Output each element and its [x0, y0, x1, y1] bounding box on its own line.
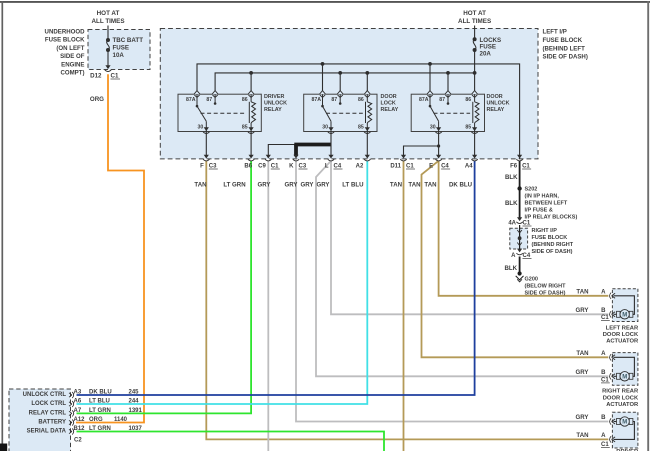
- svg-text:G200: G200: [525, 277, 538, 283]
- wire LT BLU lock ctrl: [77, 161, 368, 404]
- ground G200: [516, 271, 524, 282]
- svg-text:10A: 10A: [113, 52, 125, 59]
- svg-text:A7: A7: [74, 408, 82, 414]
- wire relay1 86 stub: [250, 73, 252, 94]
- svg-text:A12: A12: [74, 417, 86, 423]
- BCM pin A6 LOCK CTRL: [31, 399, 139, 408]
- wire relay3 87A stub: [429, 64, 431, 94]
- svg-text:E: E: [429, 164, 433, 170]
- label BLK 2: [505, 200, 518, 207]
- svg-text:87: 87: [331, 97, 337, 103]
- svg-text:244: 244: [129, 399, 140, 405]
- bus junction dots: [249, 62, 476, 75]
- svg-text:245: 245: [129, 390, 140, 396]
- svg-text:C1: C1: [522, 164, 530, 170]
- wire relay3 30 to E-C4: [438, 132, 440, 156]
- underhood fuse block box: [88, 30, 150, 70]
- svg-text:M: M: [622, 313, 627, 319]
- svg-text:A: A: [601, 432, 606, 439]
- left IP fuse block box: [160, 29, 538, 159]
- svg-text:86: 86: [242, 97, 248, 103]
- svg-text:C4: C4: [441, 164, 449, 170]
- svg-text:F6: F6: [510, 164, 518, 170]
- wire GRY K to actuator3 B: [296, 161, 608, 422]
- svg-text:I/P FUSE &: I/P FUSE &: [525, 208, 553, 214]
- svg-text:ACTUATOR: ACTUATOR: [606, 339, 639, 345]
- label ORG: [90, 96, 104, 103]
- svg-text:LEFT I/P: LEFT I/P: [543, 29, 567, 36]
- svg-text:GRY: GRY: [258, 182, 271, 189]
- svg-text:A: A: [601, 288, 606, 295]
- right IP fuse block label: [532, 228, 574, 255]
- svg-text:86: 86: [358, 97, 364, 103]
- wire labels row: [194, 182, 472, 189]
- wire D11 branch: [404, 144, 441, 155]
- wire TAN E bent to actuator2 A: [422, 161, 609, 357]
- right rear door lock actuator: [602, 353, 639, 408]
- svg-text:A3: A3: [74, 390, 82, 396]
- svg-text:C1: C1: [523, 221, 531, 227]
- wire relay2 85 to A2: [366, 132, 368, 156]
- svg-text:LT GRN: LT GRN: [89, 408, 111, 414]
- svg-text:(BEHIND LEFT: (BEHIND LEFT: [543, 45, 586, 52]
- svg-text:1140: 1140: [114, 417, 128, 423]
- svg-text:ENGINE: ENGINE: [61, 61, 84, 68]
- fuse TBC BATT 10A: [106, 37, 143, 59]
- svg-text:BLK: BLK: [504, 265, 517, 272]
- wire GRY C9 down offpage: [267, 161, 269, 451]
- svg-text:LOCK: LOCK: [381, 101, 396, 107]
- relay K1 driver unlock relay: [178, 91, 287, 134]
- svg-text:C1: C1: [406, 164, 414, 170]
- svg-text:SIDE OF DASH): SIDE OF DASH): [525, 291, 566, 297]
- svg-text:ACTUATOR: ACTUATOR: [606, 402, 639, 408]
- connector F6 C1: [510, 155, 531, 170]
- svg-text:LT GRN: LT GRN: [223, 182, 245, 189]
- ground bus (87A bus) to F6: [197, 64, 520, 159]
- svg-text:GRY: GRY: [576, 414, 589, 421]
- svg-text:BLK: BLK: [505, 200, 518, 207]
- svg-text:FUSE BLOCK: FUSE BLOCK: [45, 37, 85, 44]
- wire relay2 86 stub: [366, 73, 368, 94]
- thick lock feed wire: [294, 145, 331, 157]
- BCM pin B12 SERIAL DATA: [27, 426, 143, 435]
- svg-text:ALL TIMES: ALL TIMES: [458, 18, 491, 25]
- svg-text:C3: C3: [209, 164, 217, 170]
- wire GRY L straight to actuator1 B: [331, 161, 608, 314]
- svg-text:B: B: [601, 414, 606, 421]
- svg-text:TBC BATT: TBC BATT: [113, 37, 144, 44]
- svg-text:TAN: TAN: [424, 182, 436, 189]
- wire locks fuse feed: [474, 26, 476, 40]
- wire relay3 85 to A4: [474, 132, 476, 156]
- underhood fuse block label: [45, 29, 86, 77]
- wire fuse feed left: [107, 26, 109, 41]
- svg-text:ORG: ORG: [89, 417, 103, 423]
- wire locks fuse to relay3 86: [474, 50, 476, 94]
- svg-text:C9: C9: [258, 164, 266, 170]
- svg-text:A: A: [511, 253, 516, 259]
- svg-text:B6: B6: [244, 164, 252, 170]
- wire relay2 30 to L-C4: [330, 132, 332, 156]
- connector F C3: [200, 155, 218, 170]
- label HOT AT ALL TIMES (left): [91, 10, 124, 25]
- svg-text:30: 30: [322, 125, 328, 131]
- svg-text:C2: C2: [74, 438, 82, 444]
- svg-text:D12: D12: [90, 73, 102, 80]
- connector L C4: [325, 155, 343, 170]
- wire ORG battery feed: [76, 74, 144, 422]
- wire TAN E straight to actuator1 A: [439, 161, 609, 296]
- svg-text:GRY: GRY: [301, 182, 314, 189]
- svg-text:20A: 20A: [480, 50, 492, 57]
- svg-text:FUSE: FUSE: [113, 45, 130, 52]
- svg-text:30: 30: [430, 125, 436, 131]
- svg-text:(IN I/P HARN,: (IN I/P HARN,: [525, 194, 560, 200]
- svg-text:RELAY: RELAY: [264, 107, 282, 113]
- connector 4A C1: [508, 217, 531, 226]
- connector D12 C1: [90, 65, 120, 79]
- svg-text:A: A: [601, 350, 606, 357]
- svg-text:C4: C4: [523, 253, 531, 259]
- svg-text:TAN: TAN: [194, 182, 206, 189]
- svg-text:A2: A2: [356, 164, 364, 170]
- svg-text:87A: 87A: [186, 97, 196, 103]
- wire LT GRN serial data: [77, 432, 385, 451]
- wire relay2 87 stub: [339, 73, 341, 94]
- svg-text:SIDE OF DASH): SIDE OF DASH): [543, 54, 588, 61]
- svg-text:HOT AT: HOT AT: [463, 10, 486, 17]
- svg-text:I/P RELAY BLOCKS): I/P RELAY BLOCKS): [525, 215, 578, 221]
- wire BLK to G200: [519, 257, 521, 273]
- right IP fuse block box: [510, 228, 528, 249]
- svg-text:ALL TIMES: ALL TIMES: [91, 18, 124, 25]
- body control module box: [9, 389, 71, 451]
- svg-text:HOT AT: HOT AT: [97, 10, 120, 17]
- svg-text:85: 85: [242, 125, 248, 131]
- svg-text:GRY: GRY: [317, 182, 330, 189]
- svg-text:87: 87: [439, 97, 445, 103]
- left rear actuator pin labels: [576, 288, 610, 321]
- wire GRY L bent to actuator2 B: [316, 161, 608, 376]
- svg-text:BATTERY: BATTERY: [38, 419, 66, 425]
- svg-text:C1: C1: [271, 164, 279, 170]
- label HOT AT ALL TIMES (right): [458, 10, 491, 25]
- connector A2: [356, 155, 371, 170]
- svg-text:LT BLU: LT BLU: [342, 182, 364, 189]
- wire relay3 87 stub: [447, 73, 449, 94]
- S202 annotation: [525, 187, 578, 221]
- svg-text:K: K: [289, 164, 294, 170]
- svg-text:LEFT REAR: LEFT REAR: [606, 325, 639, 331]
- svg-text:(BEHIND RIGHT: (BEHIND RIGHT: [532, 242, 574, 248]
- svg-text:87: 87: [206, 97, 212, 103]
- svg-text:TAN: TAN: [390, 182, 402, 189]
- G200 annotation: [525, 277, 567, 297]
- svg-text:B: B: [601, 307, 606, 314]
- svg-text:BLK: BLK: [505, 174, 518, 181]
- svg-text:LOCK CTRL: LOCK CTRL: [31, 401, 66, 407]
- svg-text:RIGHT REAR: RIGHT REAR: [602, 389, 639, 395]
- label BLK 3: [504, 265, 517, 272]
- left rear door lock actuator: [603, 289, 639, 345]
- driver actuator pin labels: [576, 414, 610, 448]
- svg-text:D11: D11: [390, 164, 401, 170]
- wire LT GRN relay ctrl: [77, 161, 252, 414]
- svg-text:C4: C4: [334, 164, 342, 170]
- connector B6: [244, 155, 254, 170]
- svg-text:B: B: [601, 369, 606, 376]
- svg-text:S202: S202: [525, 187, 538, 193]
- wire BLK S202 to 4A: [519, 189, 521, 218]
- connector E C4: [429, 155, 450, 170]
- svg-text:DOOR LOCK: DOOR LOCK: [603, 395, 639, 401]
- connector C9 C1: [258, 155, 280, 170]
- BCM pin A3 UNLOCK CTRL: [23, 390, 140, 399]
- svg-text:87A: 87A: [419, 97, 429, 103]
- BCM pin A7 RELAY CTRL: [29, 408, 143, 417]
- svg-text:C1: C1: [111, 73, 119, 80]
- relay K3 door unlock relay: [411, 91, 509, 134]
- svg-text:86: 86: [465, 97, 471, 103]
- svg-text:UNLOCK: UNLOCK: [487, 101, 510, 107]
- svg-text:FUSE BLOCK: FUSE BLOCK: [543, 37, 583, 44]
- svg-text:85: 85: [358, 125, 364, 131]
- svg-text:A4: A4: [465, 164, 473, 170]
- svg-text:UNDERHOOD: UNDERHOOD: [45, 29, 86, 36]
- svg-text:L: L: [325, 164, 329, 170]
- svg-text:F: F: [200, 164, 204, 170]
- svg-text:DK BLU: DK BLU: [89, 390, 112, 396]
- svg-text:87A: 87A: [311, 97, 321, 103]
- driver door lock actuator: [610, 412, 639, 451]
- svg-text:TAN: TAN: [576, 350, 588, 357]
- svg-text:DK BLU: DK BLU: [449, 182, 473, 189]
- wire relay1 30 to F-C3: [205, 132, 207, 156]
- svg-text:M: M: [622, 375, 627, 381]
- wire BLK F6 to S202: [519, 161, 521, 189]
- wire relay2 87A stub: [322, 64, 324, 94]
- svg-text:SERIAL DATA: SERIAL DATA: [27, 428, 67, 434]
- svg-text:RELAY: RELAY: [487, 107, 505, 113]
- wire DK BLU unlock ctrl: [77, 161, 475, 395]
- svg-text:A6: A6: [74, 399, 82, 405]
- svg-text:GRY: GRY: [576, 307, 589, 314]
- svg-text:UNLOCK CTRL: UNLOCK CTRL: [23, 392, 67, 398]
- svg-text:RELAY CTRL: RELAY CTRL: [29, 410, 67, 416]
- wire TAN relay1-30 to driver actuator: [206, 161, 608, 440]
- label BLK 1: [505, 174, 518, 181]
- svg-text:BETWEEN LEFT: BETWEEN LEFT: [525, 201, 568, 207]
- svg-text:DOOR: DOOR: [487, 94, 503, 100]
- svg-text:(ON LEFT: (ON LEFT: [56, 45, 84, 52]
- wire TAN D11 down offpage: [403, 161, 405, 451]
- svg-text:RIGHT I/P: RIGHT I/P: [532, 228, 558, 234]
- wire relay1 85 to B6: [250, 132, 252, 156]
- wire C9 branch: [268, 145, 296, 156]
- svg-text:SIDE OF: SIDE OF: [60, 53, 85, 60]
- svg-text:SIDE OF DASH): SIDE OF DASH): [532, 249, 573, 255]
- BCM pin A12 BATTERY: [38, 417, 127, 426]
- svg-text:TAN: TAN: [408, 182, 420, 189]
- svg-text:TAN: TAN: [576, 288, 588, 295]
- svg-text:UNLOCK: UNLOCK: [264, 101, 287, 107]
- svg-text:DOOR: DOOR: [381, 94, 397, 100]
- relay K2 door lock relay: [304, 91, 399, 134]
- svg-text:M: M: [622, 420, 627, 426]
- wire fuse to connector: [107, 50, 109, 66]
- BCM connector C2: [74, 438, 82, 444]
- splice S202: [517, 186, 521, 190]
- svg-text:FUSE BLOCK: FUSE BLOCK: [532, 235, 568, 241]
- right IP fuse block internals: [517, 225, 522, 249]
- left IP fuse block label: [543, 29, 588, 61]
- svg-text:DRIVER: DRIVER: [264, 94, 284, 100]
- connector A C4: [511, 249, 531, 259]
- right rear actuator pin labels: [576, 350, 610, 384]
- svg-text:TAN: TAN: [576, 432, 588, 439]
- svg-text:RELAY: RELAY: [381, 107, 399, 113]
- svg-text:LT BLU: LT BLU: [89, 399, 110, 405]
- svg-text:(BELOW RIGHT: (BELOW RIGHT: [525, 284, 567, 290]
- svg-text:85: 85: [465, 125, 471, 131]
- svg-text:ORG: ORG: [90, 96, 104, 103]
- svg-text:DOOR LOCK: DOOR LOCK: [603, 332, 639, 338]
- svg-text:C3: C3: [299, 164, 307, 170]
- svg-text:GRY: GRY: [576, 369, 589, 376]
- svg-text:COMPT): COMPT): [60, 70, 84, 77]
- connector D11 C1: [390, 155, 415, 170]
- b+ bus (87 bus): [215, 73, 475, 94]
- svg-text:4A: 4A: [508, 221, 516, 227]
- svg-text:30: 30: [198, 125, 204, 131]
- svg-text:1391: 1391: [129, 408, 143, 414]
- fuse LOCKS 20A: [473, 37, 502, 57]
- connector K C3: [289, 155, 307, 170]
- svg-text:GRY: GRY: [285, 182, 298, 189]
- connector A4: [465, 155, 478, 170]
